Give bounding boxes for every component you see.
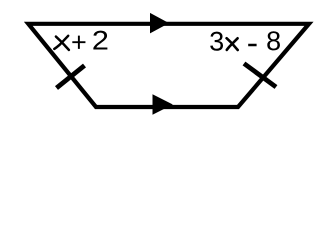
trapezoid outline	[28, 24, 309, 107]
top parallel-mark arrow	[150, 13, 169, 34]
label x + 2 : letter x (hand-drawn comic style)	[56, 37, 69, 50]
label 3x - 8 : digit 3	[210, 32, 223, 51]
label x + 2 : plus sign and 2	[72, 31, 107, 50]
label 3x - 8 : minus sign and 8	[248, 31, 280, 50]
left leg tick mark	[57, 66, 85, 89]
label 3x - 8 : letter x (hand-drawn comic style)	[227, 38, 238, 50]
right leg tick mark	[244, 64, 276, 88]
bottom parallel-mark arrow	[153, 94, 173, 114]
